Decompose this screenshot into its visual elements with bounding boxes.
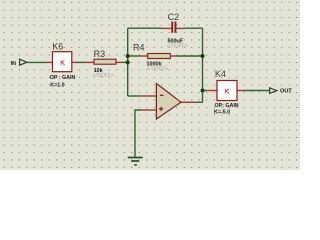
svg-text:OUT: OUT [280, 89, 292, 95]
wire R4 to right vertical [177, 55, 203, 57]
svg-text:<TEXT>: <TEXT> [147, 67, 169, 73]
svg-text:OP : GAIN: OP : GAIN [50, 75, 76, 81]
svg-text:K6: K6 [52, 41, 63, 51]
pin lead op-amp non-inverting input [141, 109, 157, 111]
pin lead R3 left [84, 61, 95, 63]
gain block K4 [217, 81, 237, 101]
op-amp minus sign [160, 94, 164, 96]
gain block K6 [53, 52, 72, 72]
svg-text:R4: R4 [133, 43, 145, 53]
terminal OUT [270, 88, 277, 94]
junction node A (R4 row) [126, 54, 130, 58]
pin lead R3 right [116, 61, 122, 63]
junction node B (R4 row right) [201, 54, 205, 58]
pin lead C2 left [162, 27, 171, 29]
pin lead K6 right [71, 61, 77, 63]
svg-text:K=1.0: K=1.0 [50, 82, 64, 88]
op-amp U1 [156, 84, 181, 120]
wire K4 to OUT [243, 90, 270, 92]
pin lead C2 right [176, 27, 185, 29]
wire left vertical feedback [127, 28, 129, 96]
svg-text:OP: GAIN: OP: GAIN [215, 103, 239, 109]
wire output to right vertical [197, 101, 203, 103]
capacitor C2 [171, 22, 173, 33]
junction node B (K4 row) [201, 89, 205, 93]
terminal IN [20, 59, 27, 65]
pin lead K4 left [208, 90, 217, 92]
svg-text:R3: R3 [94, 49, 106, 59]
pin lead op-amp inverting input [142, 95, 157, 97]
svg-text:K=-5.0: K=-5.0 [214, 109, 230, 115]
op-amp plus sign [159, 107, 163, 111]
wire C2 to right vertical [185, 27, 203, 29]
pin lead op-amp output [181, 101, 197, 103]
wire top feedback to C2 [128, 27, 162, 29]
wire node A to R4 [128, 55, 142, 57]
svg-text:C2: C2 [168, 12, 180, 22]
resistor R4 [148, 54, 171, 59]
pin lead K6 left [46, 61, 52, 63]
wire non-inverting to ground [135, 110, 141, 157]
wire K6 to R3 [77, 61, 84, 63]
pin lead K4 right [237, 90, 243, 92]
svg-text:IN: IN [11, 61, 16, 67]
svg-text:K4: K4 [215, 69, 226, 79]
pin lead R4 right [170, 55, 176, 57]
svg-text:<TEXT>: <TEXT> [93, 73, 115, 79]
ground [128, 157, 143, 159]
wire node A down to inverting input [128, 95, 142, 97]
pin lead R4 left [142, 55, 148, 57]
wire right vertical feedback [202, 28, 204, 102]
svg-text:<TEXT>: <TEXT> [167, 44, 189, 50]
wire node B to K4 [203, 90, 208, 92]
wire IN to K6 [27, 61, 46, 63]
wire R3 to node A [122, 61, 128, 63]
resistor R3 [94, 59, 116, 64]
junction node A (R3 row) [126, 60, 130, 64]
